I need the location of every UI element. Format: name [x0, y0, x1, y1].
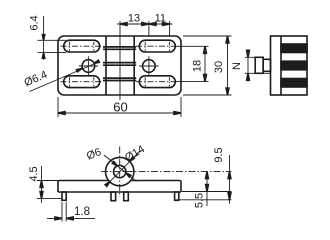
slot top-left centerline — [61, 45, 104, 47]
extension line pins bottom right — [176, 199, 232, 201]
dimension 30 extension lines — [183, 36, 232, 95]
dimension 4.5 line — [41, 166, 43, 203]
leader diameter 6.4 — [30, 62, 99, 92]
svg-text:11: 11 — [155, 13, 166, 25]
svg-text:1.8: 1.8 — [74, 206, 90, 218]
hole right — [143, 60, 156, 73]
rib bar 1 — [103, 47, 136, 49]
side view groove band 3 — [281, 79, 307, 88]
dimension 6.4 arrows — [42, 35, 44, 41]
slot bottom-left centerline — [61, 81, 104, 83]
dimension N arrows — [247, 50, 250, 57]
front view hole circle — [114, 165, 126, 177]
dimension N line — [247, 50, 249, 81]
side view inner vertical — [280, 36, 282, 95]
dimension 4.5 arrows — [40, 181, 43, 188]
dimension 13/11 extension at hole centerline — [148, 21, 150, 36]
side view groove band 1 — [281, 44, 307, 53]
slot top-right — [139, 40, 175, 52]
extension line bar bottom right — [182, 191, 232, 193]
slot bottom-left cap ticks — [70, 77, 94, 86]
front view boss circle — [106, 157, 134, 185]
rib bar 3 — [103, 78, 136, 80]
pin far right — [175, 192, 179, 200]
top view vertical centerline — [119, 21, 121, 100]
dimension 60 arrows — [58, 112, 65, 115]
svg-text:Ø14: Ø14 — [123, 143, 147, 164]
dimension 13/11 line — [117, 23, 173, 25]
dimension 60 line — [58, 112, 181, 114]
hole left — [82, 60, 95, 73]
side view body — [271, 36, 308, 95]
svg-text:9.5: 9.5 — [213, 147, 225, 162]
svg-text:18: 18 — [192, 60, 204, 72]
dimension 18 extension lines — [176, 46, 209, 81]
dimension 4.5 extension lines — [37, 181, 62, 199]
pin far left — [62, 192, 66, 200]
side view groove band 2 — [281, 61, 307, 70]
slot top-left cap ticks — [70, 42, 94, 51]
dimension 13/11 arrows — [120, 23, 127, 26]
pin center-left — [111, 192, 116, 201]
leader diameter 14 — [110, 151, 141, 182]
slot top-right centerline — [136, 45, 179, 47]
rib zone right vertical — [133, 36, 135, 95]
svg-text:60: 60 — [113, 100, 127, 115]
top view plate outline — [58, 36, 181, 95]
dimension 13/11 extension at slot cap — [169, 21, 171, 36]
dimension 1.8 arrows — [55, 217, 62, 220]
hole right crosshair — [139, 65, 158, 67]
dimension 60 extension lines — [58, 97, 181, 117]
dimension 6.4 line — [43, 16, 45, 60]
svg-text:N: N — [231, 62, 243, 70]
hole left crosshair — [79, 65, 98, 67]
dimension 5.5 line — [206, 172, 208, 206]
slot top-left — [64, 40, 100, 52]
svg-text:6.4: 6.4 — [29, 15, 41, 30]
front view horizontal centerline — [101, 171, 232, 173]
slot top-right cap ticks — [145, 42, 169, 51]
dimension 5.5 arrows — [206, 172, 209, 179]
slot bottom-right centerline — [136, 81, 179, 83]
dimension 9.5 line — [229, 155, 231, 204]
dimension 1.8 extension lines — [62, 202, 66, 222]
svg-text:30: 30 — [213, 61, 225, 73]
svg-text:Ø6.4: Ø6.4 — [23, 69, 50, 89]
slot bottom-right cap ticks — [145, 77, 169, 86]
slot bottom-right — [139, 76, 175, 88]
leader diameter 6 — [104, 155, 137, 181]
svg-text:Ø6: Ø6 — [85, 146, 103, 162]
side view tab outer — [255, 57, 263, 73]
dimension 18 arrows — [204, 46, 207, 53]
svg-text:5.5: 5.5 — [194, 193, 206, 208]
pin center-right — [124, 192, 129, 201]
front view bar outline — [58, 181, 181, 193]
dimension 18 line — [204, 46, 206, 81]
rib bar 2 — [103, 63, 136, 66]
svg-text:13: 13 — [128, 13, 140, 25]
dimension 30 arrows — [226, 36, 229, 43]
dimension 9.5 arrows — [228, 172, 231, 179]
dimension 30 line — [227, 36, 229, 95]
rib zone left vertical — [105, 36, 107, 95]
dimension 6.4 extension lines — [38, 40, 67, 52]
dimension N extension lines — [245, 57, 271, 73]
dimension 1.8 line — [47, 217, 95, 219]
svg-text:4.5: 4.5 — [28, 166, 40, 181]
front view vertical centerline — [119, 147, 121, 198]
side view tab neck — [263, 59, 270, 71]
slot bottom-left — [64, 76, 100, 88]
